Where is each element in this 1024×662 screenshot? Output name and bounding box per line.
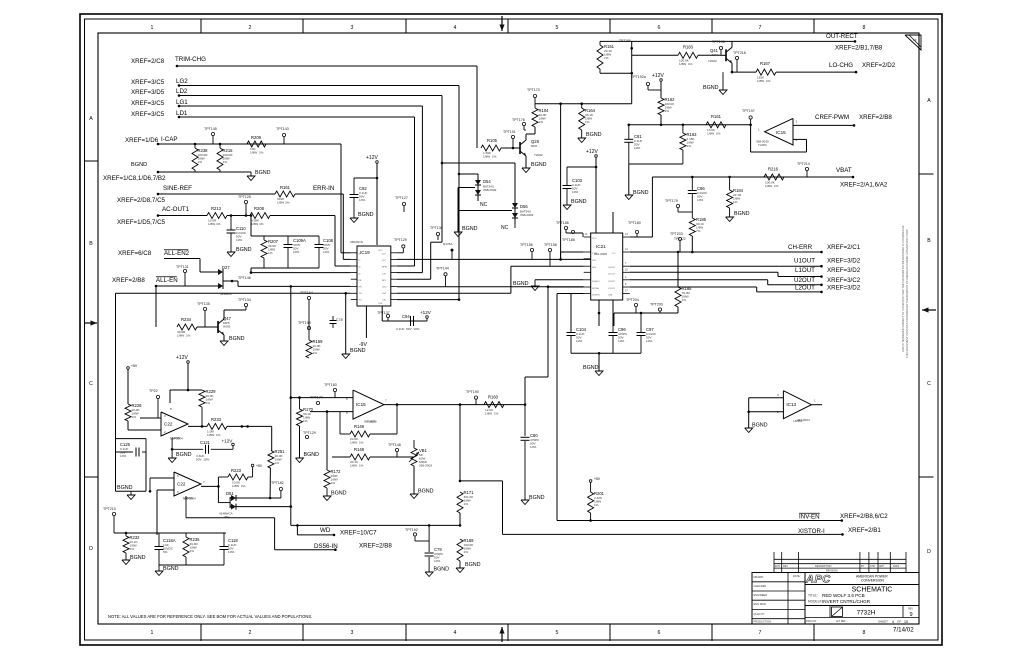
zone tick marks top [200, 19, 202, 33]
svg-text:CO: CO [612, 253, 616, 255]
wire LO-CHG right [776, 71, 856, 73]
svg-text:TPT129: TPT129 [394, 238, 407, 242]
wire IC15 inputs [291, 397, 353, 399]
wire R213-R208 [227, 215, 250, 217]
svg-text:XREF=2/B8: XREF=2/B8 [359, 543, 392, 550]
svg-text:1%: 1% [585, 120, 590, 124]
svg-text:+12V: +12V [652, 73, 664, 79]
op-amp IC15 cmp [765, 118, 793, 145]
svg-text:NP4: NP4 [712, 53, 718, 57]
power +12V C94 [426, 316, 429, 319]
svg-text:BGND: BGND [163, 566, 179, 572]
resistor R232 [123, 536, 129, 553]
transistor Q41 [725, 49, 727, 61]
testpoint TPT192a and +12V [646, 82, 649, 85]
svg-text:C22: C22 [164, 422, 173, 427]
wire top mid horizontal [535, 103, 632, 105]
power +5V R223 [251, 464, 254, 467]
wire left rail [115, 293, 117, 438]
testpoint TPT137 [386, 314, 389, 317]
wire R234 to Q47 [197, 326, 218, 328]
diode D27 [218, 269, 223, 275]
resistor R223 feedback [228, 474, 248, 480]
svg-text:ALL-EN: ALL-EN [156, 277, 178, 284]
svg-text:BGND: BGND [465, 562, 481, 568]
wire L1OUT [630, 271, 778, 273]
testpoint TPT145 [211, 132, 214, 135]
svg-text:TPT135: TPT135 [197, 302, 210, 306]
svg-text:DESCRIPTION: DESCRIPTION [815, 565, 832, 568]
svg-text:XREF=3/C5: XREF=3/C5 [131, 100, 165, 107]
svg-text:B: B [927, 238, 931, 244]
wire opamp2 bottom to DS56 [185, 496, 187, 518]
wire IC15 cmp feedback [793, 138, 807, 140]
testpoint TPT179 [676, 204, 679, 207]
wire DS56-IN [275, 549, 336, 551]
svg-text:U1OUT: U1OUT [794, 258, 815, 265]
ground R170 [299, 426, 301, 458]
resistor R228 [125, 404, 131, 421]
svg-text:TPT180: TPT180 [628, 221, 641, 225]
svg-text:XREF=2/D8,7/C5: XREF=2/D8,7/C5 [117, 197, 166, 204]
testpoint TPT180 [635, 230, 638, 233]
svg-text:BGND: BGND [734, 211, 750, 217]
svg-text:ALT REF:: ALT REF: [836, 620, 847, 623]
IC U19 [357, 246, 391, 306]
wire LD1 [178, 116, 181, 119]
wire IC19 left gnd rail [116, 292, 351, 294]
svg-text:R208: R208 [254, 206, 265, 211]
power +12V C103 [595, 155, 598, 158]
svg-text:TPT190: TPT190 [466, 390, 479, 394]
svg-text:10%: 10% [634, 146, 640, 150]
svg-text:TP22: TP22 [149, 389, 158, 393]
resistor R186 [677, 252, 679, 287]
svg-text:XREF=1/D5,7/C5: XREF=1/D5,7/C5 [117, 219, 166, 226]
svg-text:LG2: LG2 [176, 78, 188, 85]
wire Q41 emitter to ground [731, 63, 733, 72]
svg-text:L2OUT: L2OUT [608, 288, 616, 290]
testpoint TPT186 [564, 226, 567, 229]
svg-text:APP: APP [879, 565, 884, 568]
svg-text:D55: D55 [520, 204, 528, 209]
svg-text:U2OUT: U2OUT [794, 277, 815, 284]
resistor R159 [306, 340, 312, 358]
svg-text:TPT145: TPT145 [204, 127, 217, 131]
svg-text:D: D [89, 546, 93, 552]
power +12V IC19 [376, 161, 379, 164]
ground C103 [563, 205, 571, 210]
svg-text:10%: 10% [236, 238, 242, 242]
svg-text:1%: 1% [130, 547, 135, 551]
svg-text:C78: C78 [336, 318, 343, 322]
svg-text:10%: 10% [572, 190, 578, 194]
wire IC15 cmp output CREF-PWM [793, 124, 854, 126]
wire U2OUT [630, 279, 768, 281]
op-amp IC22b [174, 472, 201, 496]
testpoint TPT144 [444, 273, 447, 276]
svg-text:DKSEN: DKSEN [592, 295, 600, 297]
svg-text:NP8: NP8 [531, 144, 537, 148]
svg-text:NC: NC [480, 202, 488, 208]
resistor R160 [484, 402, 504, 408]
wire BGND row [157, 171, 160, 174]
svg-text:TPT195: TPT195 [619, 39, 631, 43]
svg-text:IC15: IC15 [356, 402, 366, 407]
scale symbol box [832, 607, 843, 617]
svg-text:TPT182: TPT182 [271, 481, 284, 485]
svg-text:1%: 1% [733, 200, 738, 204]
wire TPT rail [308, 300, 310, 340]
svg-text:TPT186: TPT186 [556, 221, 569, 225]
svg-text:U1C: U1C [382, 293, 387, 295]
resistor R163 [682, 125, 684, 133]
svg-text:TPT219: TPT219 [103, 507, 116, 511]
svg-text:BGND: BGND [358, 212, 374, 218]
wire ALL-EN drop to R234 [155, 286, 157, 327]
svg-text:OS: OS [359, 293, 363, 295]
wire Q41 collector [731, 41, 733, 47]
wire bottom-left gnd bus [159, 564, 224, 566]
svg-text:DRAWN: DRAWN [754, 575, 764, 579]
inner drawing border [98, 33, 919, 624]
svg-text:TPT128: TPT128 [238, 195, 251, 199]
ground C79 [425, 572, 433, 577]
svg-text:C94: C94 [402, 314, 410, 319]
svg-text:1/8W 1%: 1/8W 1% [707, 132, 721, 136]
svg-text:TPT176: TPT176 [512, 118, 525, 122]
potentiometer VB1 [411, 448, 417, 466]
svg-text:XREF=3/D2: XREF=3/D2 [827, 285, 861, 292]
resistor R251 [268, 451, 274, 469]
svg-text:BGND: BGND [331, 491, 347, 497]
wire R183 to Q41 [698, 54, 720, 56]
svg-text:BGND: BGND [255, 170, 271, 176]
testpoint TPT191 [511, 135, 514, 138]
wire IC15 plus rail [290, 286, 292, 525]
testpoint TPT176 [522, 122, 525, 125]
wire D51 lower output [236, 506, 291, 508]
svg-text:TITLE:: TITLE: [808, 594, 818, 598]
transistor Q47 [217, 321, 219, 333]
wire D55 feed [442, 162, 515, 164]
svg-text:XREF=1/C8,1/D6,7/B2: XREF=1/C8,1/D6,7/B2 [103, 175, 166, 182]
zone boundary ticks left [85, 160, 99, 162]
svg-text:BGND: BGND [529, 495, 545, 501]
svg-text:5: 5 [556, 630, 559, 636]
wire IC21 pin13 from VBAT rail [630, 236, 653, 238]
svg-text:+5V: +5V [594, 477, 601, 481]
svg-text:THIS DOCUMENT CONTAINS PROPRIE: THIS DOCUMENT CONTAINS PROPRIETARY INFOR… [905, 229, 909, 358]
svg-text:L1OUT: L1OUT [795, 267, 815, 274]
svg-text:+12V: +12V [176, 355, 188, 361]
wire NC stub [514, 224, 516, 228]
svg-text:+12V: +12V [420, 310, 432, 315]
svg-text:BGND: BGND [571, 199, 587, 205]
resistor R235 [185, 533, 187, 537]
svg-text:1%: 1% [665, 109, 670, 113]
svg-text:BGND: BGND [586, 132, 602, 138]
testpoint TPT128 [244, 200, 247, 203]
capacitor C94 [410, 316, 412, 326]
svg-text:SHEET: SHEET [878, 620, 888, 624]
wire C81-R163 bottom [629, 163, 683, 165]
svg-text:TPT194: TPT194 [300, 291, 313, 295]
resistor R161 sine [275, 191, 295, 197]
wire D55 mid to gnd rail [458, 210, 512, 212]
svg-text:XREF=3/D5: XREF=3/D5 [131, 89, 165, 96]
testpoint TPT129b [305, 435, 308, 438]
svg-text:R148: R148 [354, 447, 365, 452]
svg-text:7: 7 [759, 25, 762, 31]
svg-text:RED WOLF 3.6 PCB: RED WOLF 3.6 PCB [822, 593, 865, 598]
svg-text:D: D [927, 549, 931, 555]
svg-text:1%: 1% [206, 401, 211, 405]
svg-text:1: 1 [151, 630, 154, 636]
svg-text:10%: 10% [359, 198, 365, 202]
wire opamp2 output [201, 485, 218, 487]
testpoint TPT170 [533, 94, 536, 97]
svg-text:TPT127: TPT127 [395, 196, 408, 200]
wire SINE-REF [157, 193, 160, 196]
svg-text:+12V: +12V [366, 155, 378, 161]
ground IC21 left [531, 286, 539, 291]
resistor R161 cmp [706, 122, 726, 128]
svg-text:TPT131: TPT131 [176, 265, 189, 269]
resistor R149 feedback [339, 412, 341, 434]
capacitor C110 [230, 216, 232, 231]
wire R151 bottom [599, 69, 601, 73]
wire D27 output [232, 280, 238, 282]
svg-text:TPT196: TPT196 [712, 40, 725, 44]
svg-text:BGND: BGND [131, 162, 147, 168]
svg-text:1/8W 1%: 1/8W 1% [232, 484, 246, 488]
svg-text:TPT214: TPT214 [797, 162, 810, 166]
svg-text:R149: R149 [354, 424, 365, 429]
svg-text:XREF=3/C5: XREF=3/C5 [131, 79, 165, 86]
svg-text:1/8W 1%: 1/8W 1% [350, 464, 364, 468]
capacitor C103 [567, 166, 596, 168]
svg-text:A: A [89, 116, 93, 122]
testpoint TPT197 [749, 116, 752, 119]
center fold arrow right [922, 309, 936, 311]
svg-text:BGND: BGND [531, 162, 547, 168]
svg-text:D27: D27 [222, 265, 230, 270]
svg-text:1%: 1% [464, 550, 469, 554]
wire C121 row [171, 439, 173, 450]
svg-text:+12V: +12V [586, 149, 598, 155]
svg-text:TPT200: TPT200 [650, 303, 663, 307]
wire R186 bottom [614, 312, 678, 314]
wire ERR-IN [295, 193, 343, 195]
wire IC21 bottom caps [598, 300, 600, 326]
testpoint TPT130 [436, 232, 439, 235]
resistor R104 [532, 108, 538, 127]
resistor R233 [207, 423, 227, 429]
svg-text:R178A: R178A [443, 242, 453, 246]
svg-text:U2O: U2O [382, 287, 387, 289]
resistor R105 [481, 145, 501, 151]
svg-text:XREF=2/B1: XREF=2/B1 [848, 527, 881, 534]
resistor R162 [658, 98, 664, 115]
svg-text:DWG NO:: DWG NO: [806, 620, 817, 623]
svg-text:10%: 10% [293, 250, 299, 254]
wire XISTOR-I [503, 533, 843, 535]
svg-text:2: 2 [249, 630, 252, 636]
op-amp IC22a [161, 412, 188, 436]
svg-text:U2OUT: U2OUT [608, 281, 616, 283]
diode D54 [459, 173, 478, 175]
svg-text:IC19: IC19 [360, 250, 370, 255]
svg-text:TPT188: TPT188 [562, 238, 575, 242]
revision table [774, 558, 906, 560]
wire AC-OUT1 to IC19 [270, 215, 335, 217]
ground D54/D55 [454, 232, 462, 237]
testpoint TPT135 [203, 307, 206, 310]
svg-text:4: 4 [454, 25, 457, 31]
center fold arrow bottom [501, 627, 503, 642]
svg-text:XREF=3/D2: XREF=3/D2 [827, 258, 861, 265]
svg-text:XREF=2/B1,7/B8: XREF=2/B1,7/B8 [835, 45, 883, 52]
svg-text:R213: R213 [211, 206, 222, 211]
svg-text:LIN: LIN [592, 260, 596, 262]
svg-text:1/8W 1%: 1/8W 1% [757, 79, 771, 83]
wire R105 to Q28 [501, 147, 520, 149]
testpoint TPT190b [474, 396, 477, 399]
capacitor C104 [567, 332, 576, 334]
ground R232 [125, 553, 127, 560]
svg-text:R160: R160 [488, 395, 499, 400]
svg-text:INVERT CNTRL/CHGR: INVERT CNTRL/CHGR [822, 599, 871, 604]
svg-text:TPT156: TPT156 [520, 243, 533, 247]
svg-text:R105: R105 [487, 138, 498, 143]
wire WD line [291, 524, 460, 526]
svg-text:TPT218: TPT218 [733, 51, 746, 55]
svg-text:TL084: TL084 [758, 143, 767, 147]
svg-text:I-CAP: I-CAP [161, 136, 178, 143]
ground R184 [729, 208, 731, 217]
testpoint TPT148 [395, 448, 398, 451]
testpoint TPT131 [183, 269, 186, 272]
svg-text:TPT134: TPT134 [238, 298, 251, 302]
ground C110 [227, 252, 235, 257]
resistor R216 [764, 174, 784, 180]
resistor R164 [581, 104, 583, 108]
svg-text:1%: 1% [594, 503, 599, 507]
wire opamp2 inputs [150, 477, 174, 479]
second border frame [85, 19, 939, 640]
svg-text:L1O: L1O [382, 254, 386, 256]
svg-text:75V: 75V [224, 515, 229, 519]
svg-text:50V 10%: 50V 10% [196, 458, 210, 462]
svg-text:3: 3 [351, 25, 354, 31]
svg-text:BGND: BGND [350, 348, 366, 354]
svg-text:XREF=10/C7: XREF=10/C7 [340, 530, 377, 537]
svg-text:ECN: ECN [775, 565, 780, 568]
svg-text:2: 2 [249, 25, 252, 31]
svg-text:1%: 1% [687, 144, 692, 148]
svg-text:OF: OF [897, 620, 901, 624]
svg-text:BGND: BGND [462, 226, 478, 232]
svg-text:R161: R161 [280, 185, 291, 190]
svg-text:7/14/02: 7/14/02 [893, 627, 914, 634]
wire R161cmp row [629, 124, 751, 126]
wire IC21 pin17 INV-EN riser [557, 293, 584, 295]
ground Q47 [220, 341, 228, 346]
svg-text:DS56-IN: DS56-IN [314, 543, 338, 550]
testpoint TPT203 [678, 237, 681, 240]
svg-text:C: C [927, 381, 931, 387]
svg-text:1/8W 1%: 1/8W 1% [250, 151, 264, 155]
svg-text:XREF=3/C5: XREF=3/C5 [131, 111, 165, 118]
wire AC-OUT1 [157, 214, 160, 217]
svg-text:8: 8 [863, 630, 866, 636]
svg-text:A: A [927, 98, 931, 104]
svg-text:T2022: T2022 [534, 153, 543, 157]
resistor R201 [588, 492, 594, 513]
svg-text:1%: 1% [539, 120, 544, 124]
ground R164 [581, 130, 583, 138]
wire TRIM-CHG [176, 65, 179, 68]
svg-text:ENGINEER: ENGINEER [754, 593, 768, 597]
svg-text:1/8W 1%: 1/8W 1% [177, 334, 191, 338]
svg-text:LO-CHG: LO-CHG [829, 62, 853, 69]
svg-text:+5V: +5V [256, 464, 263, 468]
drawing number cell [829, 606, 831, 618]
wire bottom-left bus [114, 532, 226, 534]
svg-text:BGND: BGND [583, 365, 599, 371]
svg-text:BGND: BGND [236, 247, 252, 253]
testpoint TPT134 [244, 303, 247, 306]
wire CH-ERR [630, 251, 822, 253]
power +5V R228 [127, 367, 130, 370]
svg-text:WD: WD [320, 527, 331, 534]
svg-text:7732H: 7732H [857, 610, 876, 617]
svg-text:10%: 10% [697, 198, 703, 202]
resistor R238 [192, 148, 198, 170]
testpoint TPT204 [634, 303, 637, 306]
wire opamp1 output [188, 425, 207, 427]
capacitor C97 [640, 313, 642, 332]
testpoint TPT193 [307, 326, 310, 329]
svg-text:DIPSA: DIPSA [592, 287, 599, 290]
svg-text:IC15: IC15 [776, 130, 786, 135]
svg-text:1%: 1% [132, 415, 137, 419]
testpoint TPT194 [307, 296, 310, 299]
ground IC19 [342, 354, 350, 359]
wire LG2 [178, 84, 181, 87]
svg-text:ENG MGR: ENG MGR [754, 602, 767, 606]
wire IC19 pin1 TPT129 [397, 252, 403, 254]
wire ALL-EN [155, 285, 158, 288]
svg-text:R161: R161 [711, 114, 722, 119]
svg-text:10%: 10% [618, 339, 624, 343]
svg-text:10%: 10% [120, 454, 126, 458]
svg-text:XREF=2/B8,6/C2: XREF=2/B8,6/C2 [840, 513, 888, 520]
capacitor C125 [116, 438, 147, 440]
svg-text:TPT129: TPT129 [303, 431, 316, 435]
resistor R215 [217, 148, 223, 170]
svg-text:XREF=1/D6: XREF=1/D6 [125, 137, 159, 144]
resistor R209 [247, 141, 266, 147]
svg-text:L3O: L3O [382, 300, 386, 302]
svg-text:LD2: LD2 [176, 88, 188, 95]
wire IC21 pin to INV chain [548, 286, 584, 288]
wire L2OUT [630, 286, 757, 288]
svg-text:NOTE: ALL VALUES ARE FOR REFER: NOTE: ALL VALUES ARE FOR REFERENCE ONLY.… [108, 614, 312, 619]
svg-text:3R1001S: 3R1001S [350, 240, 363, 244]
svg-text:BGND: BGND [633, 190, 649, 196]
